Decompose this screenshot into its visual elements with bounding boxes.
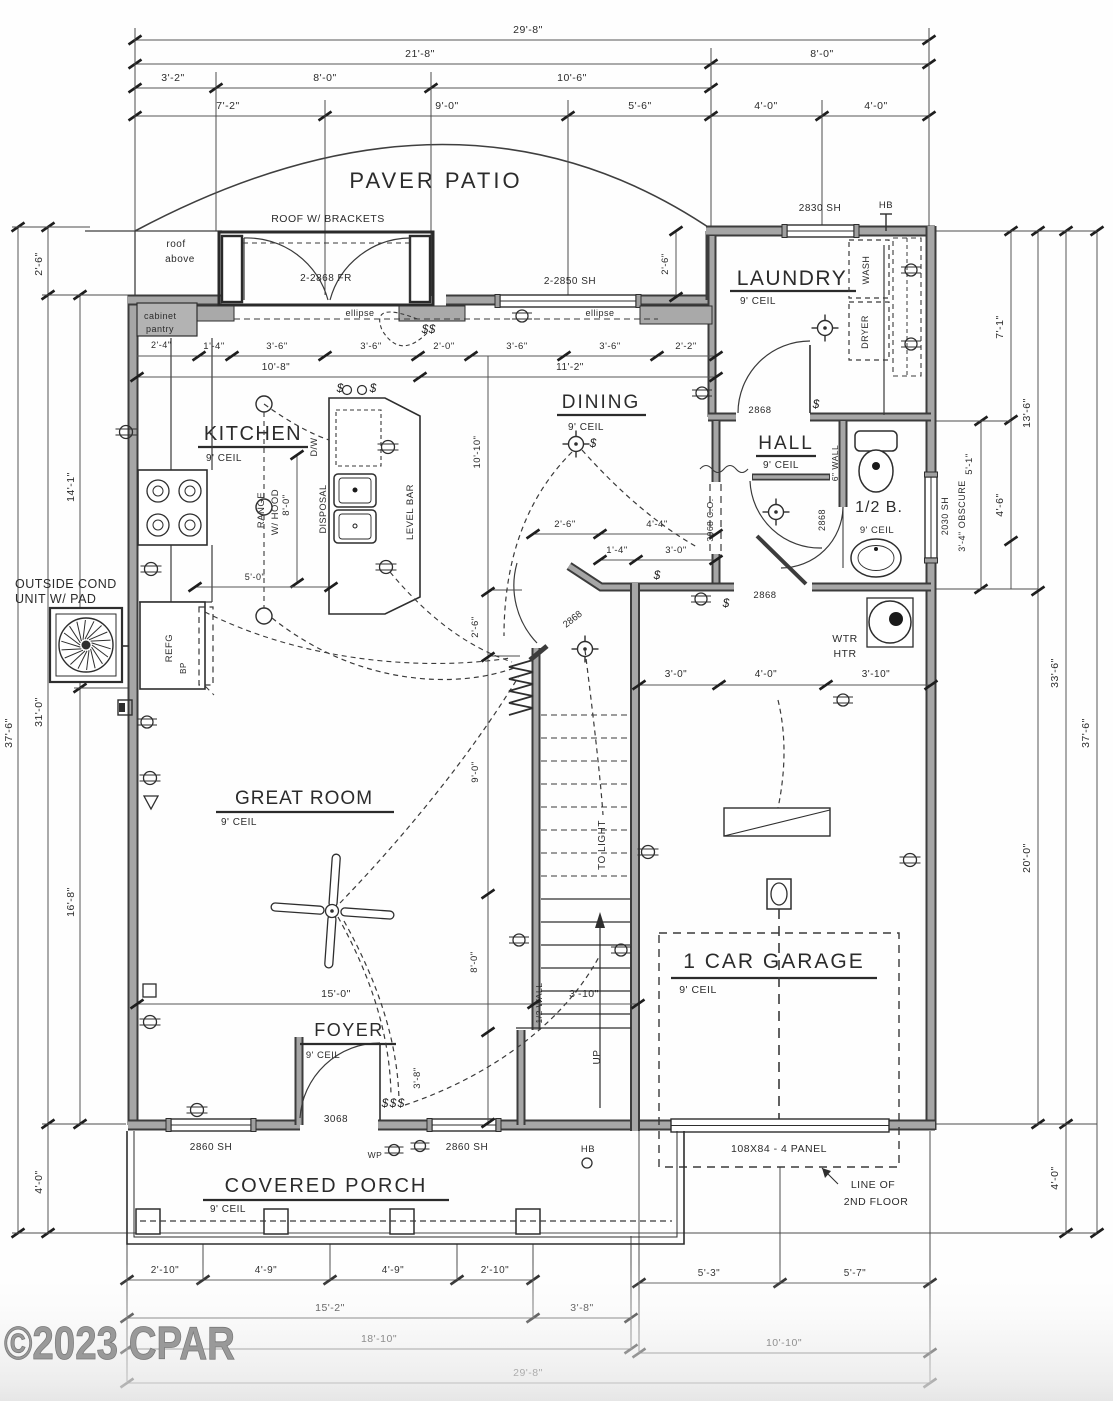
wall front (north) exterior (128, 295, 716, 306)
svg-text:4'-6": 4'-6" (994, 493, 1006, 516)
stairs lower treads (541, 898, 630, 900)
wiring stair light (585, 650, 603, 815)
extension lines right (935, 230, 1097, 232)
laundry counter line (883, 245, 885, 415)
wiring kitchen counter (264, 404, 329, 440)
svg-text:LAUNDRY: LAUNDRY (737, 267, 847, 290)
svg-text:ellipse: ellipse (585, 308, 614, 318)
svg-text:13'-6": 13'-6" (1021, 398, 1033, 428)
svg-text:3'-6": 3'-6" (266, 341, 287, 352)
wall half bath wall (839, 421, 848, 507)
roof above outline (85, 230, 222, 232)
dimension line left 37-6 (17, 227, 19, 1233)
svg-text:9' CEIL: 9' CEIL (568, 422, 604, 433)
ceiling light stair light (578, 642, 593, 657)
shelf centerline (906, 238, 908, 376)
cond connector (122, 645, 129, 647)
svg-text:3'-6": 3'-6" (506, 341, 527, 352)
outlet great room outlet W (144, 772, 157, 785)
UP arrow (599, 922, 601, 1108)
tread dashed 6 (541, 829, 630, 831)
outlet patio outlet (516, 310, 528, 322)
wiring refg to stair (205, 612, 510, 663)
ceiling light hall light (769, 505, 784, 520)
svg-text:WP: WP (368, 1150, 383, 1160)
svg-text:3'-10": 3'-10" (862, 669, 890, 680)
svg-text:14'-1": 14'-1" (65, 472, 77, 502)
dimension line left 31-0 (47, 227, 49, 1233)
wall left exterior (128, 295, 139, 1125)
window sill blocks (197, 306, 234, 321)
water heater (867, 598, 913, 647)
svg-text:$: $ (397, 1096, 405, 1110)
dimension line patio 2-6 (675, 231, 677, 297)
outlet porch outlet (389, 1145, 400, 1156)
wall laundry north exterior (706, 226, 935, 237)
dimension line bottom 18-10 (127, 1348, 631, 1350)
svg-text:3068: 3068 (324, 1114, 348, 1125)
door head dashed (243, 242, 410, 244)
svg-text:2'-6": 2'-6" (470, 616, 481, 637)
outlet laundry outlet 1 (905, 264, 917, 276)
svg-text:8'-0": 8'-0" (313, 72, 336, 84)
svg-text:$: $ (589, 436, 597, 450)
dimension line window spacing row (137, 355, 716, 357)
svg-text:9' CEIL: 9' CEIL (679, 984, 717, 996)
wall hall south wall (569, 566, 931, 587)
svg-text:$: $ (336, 381, 344, 395)
garage centerline dashed (778, 909, 780, 1124)
svg-text:$: $ (369, 381, 377, 395)
garage ceiling box (767, 879, 791, 909)
svg-text:8'-0": 8'-0" (281, 494, 292, 515)
wall south exterior (128, 1120, 935, 1131)
window 2830 SH (787, 225, 854, 237)
outlet garage outlet E (904, 854, 917, 867)
svg-text:20'-0": 20'-0" (1021, 843, 1033, 873)
svg-text:D/W: D/W (309, 438, 319, 457)
wiring dining down to coil (504, 452, 572, 636)
outlet dining wall outlet (696, 387, 708, 399)
svg-text:2'-0": 2'-0" (433, 341, 454, 352)
outlet stair outlet (837, 694, 849, 706)
outlet south wall outlet (191, 1104, 204, 1117)
svg-text:5'-1": 5'-1" (964, 453, 975, 474)
svg-text:PAVER PATIO: PAVER PATIO (349, 168, 522, 193)
svg-text:above: above (165, 254, 195, 265)
svg-text:3'-2": 3'-2" (161, 72, 184, 84)
tread dashed 4 (541, 783, 630, 785)
wall hall west wall (712, 421, 721, 589)
wall laundry west jog (706, 231, 717, 300)
dimension line bottom porch cols (127, 1279, 533, 1281)
laundry door 2868 (809, 345, 811, 413)
svg-text:2868: 2868 (753, 590, 776, 601)
dimension line garage top row (639, 684, 931, 686)
svg-text:3'-0": 3'-0" (665, 669, 687, 680)
outlet column dashed (263, 412, 265, 608)
svg-text:$: $ (722, 596, 730, 610)
tread dashed 3 (541, 760, 630, 762)
wiring island to stair (390, 572, 512, 662)
handrail coil (509, 660, 533, 715)
wiring fan to foyer switch b (344, 921, 399, 1102)
svg-text:108X84 - 4 PANEL: 108X84 - 4 PANEL (731, 1143, 827, 1155)
tread dashed 5 (541, 806, 630, 808)
svg-text:3'-4" OBSCURE: 3'-4" OBSCURE (957, 480, 967, 551)
svg-text:7'-2": 7'-2" (216, 100, 239, 112)
svg-text:$: $ (389, 1096, 397, 1110)
extension lines top (134, 28, 136, 231)
wiring to attic (778, 700, 784, 808)
wiring dining to switch (582, 450, 697, 547)
svg-text:29'-8": 29'-8" (513, 24, 543, 36)
tread dashed 7 (541, 852, 630, 854)
svg-text:2'-6": 2'-6" (660, 253, 671, 274)
svg-text:2860 SH: 2860 SH (446, 1142, 488, 1153)
svg-text:ROOF W/ BRACKETS: ROOF W/ BRACKETS (271, 213, 385, 225)
svg-text:COVERED PORCH: COVERED PORCH (225, 1175, 428, 1197)
wall laundry west interior (708, 236, 717, 417)
svg-text:OUTSIDE COND: OUTSIDE COND (15, 577, 117, 591)
extension lines left (12, 226, 90, 228)
ceiling fan F1 (267, 850, 398, 972)
kitchen outlet column (256, 396, 272, 412)
outlet laundry outlet 2 (905, 338, 917, 350)
svg-text:1 CAR GARAGE: 1 CAR GARAGE (683, 950, 865, 973)
ceiling light dining light (569, 437, 584, 452)
svg-text:9'-0": 9'-0" (435, 100, 458, 112)
porch column (264, 1209, 288, 1234)
svg-text:2-2850 SH: 2-2850 SH (544, 276, 596, 287)
porch column (516, 1209, 540, 1234)
svg-text:2'-6": 2'-6" (554, 519, 575, 530)
ceiling light laundry light (818, 321, 833, 336)
range R1 (138, 470, 207, 545)
cased opening dash (710, 484, 721, 552)
svg-text:cabinet: cabinet (144, 311, 177, 321)
svg-text:1/2 B.: 1/2 B. (855, 499, 903, 516)
svg-text:8'-0": 8'-0" (469, 951, 480, 972)
svg-text:9' CEIL: 9' CEIL (306, 1050, 340, 1061)
dimension line top 3-2/8-0/10-6 (135, 87, 711, 89)
svg-text:9' CEIL: 9' CEIL (860, 525, 894, 536)
wall stair half wall (532, 648, 541, 1030)
svg-text:LEVEL BAR: LEVEL BAR (405, 484, 416, 540)
foyer entry door 3068 (379, 1043, 381, 1120)
dimension line top 21-8 / 8-0 (135, 63, 929, 65)
dimension line dining row1 (533, 533, 716, 535)
pantry mark (205, 686, 214, 695)
wall right exterior (926, 226, 937, 1130)
svg-text:8'-0": 8'-0" (810, 48, 833, 60)
svg-text:BP: BP (179, 662, 188, 674)
svg-text:33'-6": 33'-6" (1049, 658, 1061, 688)
dimension line top total 29-8 (135, 39, 929, 41)
wiring kitchen to stair (272, 618, 514, 680)
svg-text:TO LIGHT: TO LIGHT (597, 820, 608, 870)
dryer dashed box (849, 302, 889, 360)
wall garage west wall (630, 583, 640, 1131)
bottom long extension line (12, 1232, 1097, 1234)
svg-text:DRYER: DRYER (860, 315, 870, 349)
svg-text:DINING: DINING (562, 392, 641, 413)
svg-text:$: $ (653, 568, 661, 582)
kitchen counter (170, 338, 172, 602)
outlet west outlet low (141, 716, 153, 728)
svg-text:7'-1": 7'-1" (994, 315, 1006, 338)
svg-text:$: $ (421, 322, 429, 336)
outlet garage outlet W (642, 846, 655, 859)
outlet porch outlet 2 (415, 1141, 426, 1152)
outlet island outlet 1 (382, 441, 395, 454)
island faucet marks (343, 386, 352, 395)
svg-text:37'-6": 37'-6" (3, 718, 15, 748)
wall stair/foyer wall (517, 1030, 526, 1125)
svg-text:9' CEIL: 9' CEIL (740, 296, 776, 307)
tread dashed 8 (541, 875, 630, 877)
svg-text:9' CEIL: 9' CEIL (221, 817, 257, 828)
island / level bar (329, 398, 420, 614)
dimension line great room 15-0 (137, 1003, 638, 1005)
dimension line dining row2 (600, 559, 716, 561)
svg-text:DISPOSAL: DISPOSAL (318, 484, 328, 533)
svg-text:UNIT W/ PAD: UNIT W/ PAD (15, 592, 96, 606)
svg-text:10'-10": 10'-10" (472, 436, 483, 469)
svg-text:ellipse: ellipse (345, 308, 374, 318)
svg-text:9'-0": 9'-0" (470, 761, 481, 782)
svg-text:UP: UP (592, 1050, 603, 1065)
dim connectors (489, 589, 522, 591)
svg-text:$: $ (812, 397, 820, 411)
extension lines bottom (126, 1244, 128, 1383)
wiring fan to stair coil (340, 676, 519, 903)
bath door 2868 (781, 507, 843, 568)
outlet garage wall outlet (615, 944, 627, 956)
svg-text:2868: 2868 (748, 405, 771, 416)
svg-text:2-2868 FR: 2-2868 FR (300, 273, 352, 284)
svg-text:4'-0": 4'-0" (755, 669, 777, 680)
svg-text:1'-4": 1'-4" (203, 341, 224, 352)
svg-text:4'-0": 4'-0" (1049, 1166, 1061, 1189)
svg-text:3'-0": 3'-0" (665, 545, 686, 556)
outlet half wall outlet (513, 934, 525, 946)
svg-text:pantry: pantry (146, 324, 174, 334)
svg-text:WTR: WTR (832, 633, 857, 645)
svg-text:9' CEIL: 9' CEIL (210, 1204, 246, 1215)
toilet (855, 431, 897, 451)
bottom gradient (0, 1262, 1113, 1401)
svg-text:2'-6": 2'-6" (33, 252, 45, 275)
svg-text:4'-0": 4'-0" (754, 100, 777, 112)
dining door arc 2868 (514, 563, 537, 643)
tread dashed 1 (541, 714, 630, 716)
stair landing edge (516, 1027, 631, 1029)
outlet hall outlet (695, 593, 707, 605)
wiring foyer to stair (405, 955, 600, 1105)
svg-text:2030 SH: 2030 SH (940, 497, 950, 536)
svg-text:37'-6": 37'-6" (1080, 718, 1092, 748)
dimension line right 7-1/4-6 (1010, 231, 1012, 589)
svg-text:GREAT ROOM: GREAT ROOM (235, 788, 373, 809)
svg-text:RANGE: RANGE (256, 492, 267, 528)
dimension line bottom 15-2/3-8 (127, 1317, 631, 1319)
svg-text:HB: HB (581, 1144, 595, 1155)
dimension line right 5-1 (980, 421, 982, 589)
svg-text:$: $ (428, 322, 436, 336)
dimension line bottom total 29-8 (127, 1382, 930, 1384)
svg-text:W/ HOOD: W/ HOOD (270, 489, 281, 535)
outlet kitchen wall outlet 2 (145, 563, 158, 576)
dimension line 10-8 / 11-2 row (137, 376, 716, 378)
pantry dashed box (199, 607, 213, 685)
wiring squiggle at cased opening (700, 466, 748, 473)
kitchen sink (334, 474, 376, 507)
svg-text:HALL: HALL (758, 433, 814, 454)
svg-text:3'-6": 3'-6" (360, 341, 381, 352)
dimension line top window centers (135, 115, 929, 117)
wall foyer west wall (295, 1037, 304, 1125)
dimension line kitchen 8-0 (296, 455, 298, 583)
window 2860 SH left (171, 1119, 251, 1131)
laundry shelf dashed (893, 238, 921, 376)
dimension line bottom right 5-3/5-7 (639, 1282, 930, 1284)
svg-text:KITCHEN: KITCHEN (204, 423, 302, 445)
2nd floor dashed outline (659, 933, 899, 1167)
wiring fan to foyer switch a (338, 917, 391, 1096)
wiring patio switch (380, 312, 427, 346)
outlet kitchen wall outlet 1 (120, 426, 133, 439)
porch column (390, 1209, 414, 1234)
soffit dashed line (234, 318, 658, 320)
svg-text:WASH: WASH (861, 256, 871, 285)
svg-text:5'-0": 5'-0" (245, 572, 265, 582)
svg-text:LINE OF: LINE OF (851, 1179, 895, 1191)
svg-text:3'-6": 3'-6" (599, 341, 620, 352)
porch dashed line (140, 1220, 672, 1222)
patio french door surround (219, 232, 433, 305)
svg-text:1'-4": 1'-4" (606, 545, 627, 556)
svg-text:4'-0": 4'-0" (33, 1170, 45, 1193)
porch outline (127, 1131, 684, 1244)
half wall top cap (530, 646, 547, 660)
svg-text:2'-4": 2'-4" (151, 340, 171, 350)
attic access (724, 808, 830, 836)
window 2030 SH bath (925, 477, 937, 558)
window 2-2850 SH (500, 295, 636, 307)
hall vestibule wall (752, 474, 830, 481)
dimension line island 5-0 (195, 586, 331, 588)
dimension line right 37-6 (1096, 231, 1098, 1233)
outlet island outlet 2 (380, 561, 393, 574)
svg-text:2868: 2868 (817, 509, 827, 531)
svg-text:5'-6": 5'-6" (628, 100, 651, 112)
porch column (136, 1209, 160, 1234)
svg-text:11'-2": 11'-2" (556, 362, 584, 373)
svg-text:31'-0": 31'-0" (33, 697, 45, 727)
svg-text:©2023 CPAR: ©2023 CPAR (4, 1317, 235, 1369)
wall laundry/hall wall (708, 413, 931, 422)
svg-text:$: $ (381, 1096, 389, 1110)
svg-text:HTR: HTR (833, 648, 856, 660)
garage door opening (671, 1119, 889, 1132)
svg-text:3'-10": 3'-10" (569, 988, 599, 1000)
paver patio arc (135, 145, 714, 232)
thermostat triangle (144, 796, 158, 809)
svg-text:REFG: REFG (164, 634, 175, 662)
svg-text:15'-0": 15'-0" (321, 988, 351, 1000)
french door swing arcs (244, 238, 328, 300)
dimension line right 13-6/20-0 (1037, 231, 1039, 1124)
svg-text:roof: roof (166, 239, 185, 250)
svg-text:16'-8": 16'-8" (65, 887, 77, 917)
dishwasher dashed (336, 410, 381, 466)
condenser unit (50, 608, 122, 682)
svg-text:2830 SH: 2830 SH (799, 203, 841, 214)
svg-text:6" WALL: 6" WALL (830, 445, 840, 481)
dimension line bottom 10-10 (639, 1352, 930, 1354)
bath sink (851, 539, 901, 577)
svg-text:FOYER: FOYER (314, 1020, 384, 1040)
svg-text:9' CEIL: 9' CEIL (763, 460, 799, 471)
tread dashed 2 (541, 737, 630, 739)
svg-text:21'-8": 21'-8" (405, 48, 435, 60)
svg-text:10'-8": 10'-8" (262, 362, 290, 373)
hall door 2868 (750, 481, 822, 548)
svg-text:3'-8": 3'-8" (412, 1067, 423, 1088)
svg-text:2860 SH: 2860 SH (190, 1142, 232, 1153)
svg-text:2'-2": 2'-2" (675, 341, 696, 352)
washer dashed box (849, 240, 889, 298)
refrigerator (140, 602, 205, 689)
svg-text:HB: HB (879, 200, 893, 211)
dimension line right 33-6 (1065, 231, 1067, 1233)
dimension line stair column dims (487, 356, 489, 1123)
svg-text:2ND FLOOR: 2ND FLOOR (844, 1196, 909, 1208)
kitchen cabinet/pantry (137, 303, 197, 336)
svg-text:4'-0": 4'-0" (864, 100, 887, 112)
dimension line left 14-1/16-8 (79, 295, 81, 1124)
svg-text:10'-6": 10'-6" (557, 72, 587, 84)
outlet great room outlet SW (144, 1016, 157, 1029)
window 2860 SH right (432, 1119, 496, 1131)
